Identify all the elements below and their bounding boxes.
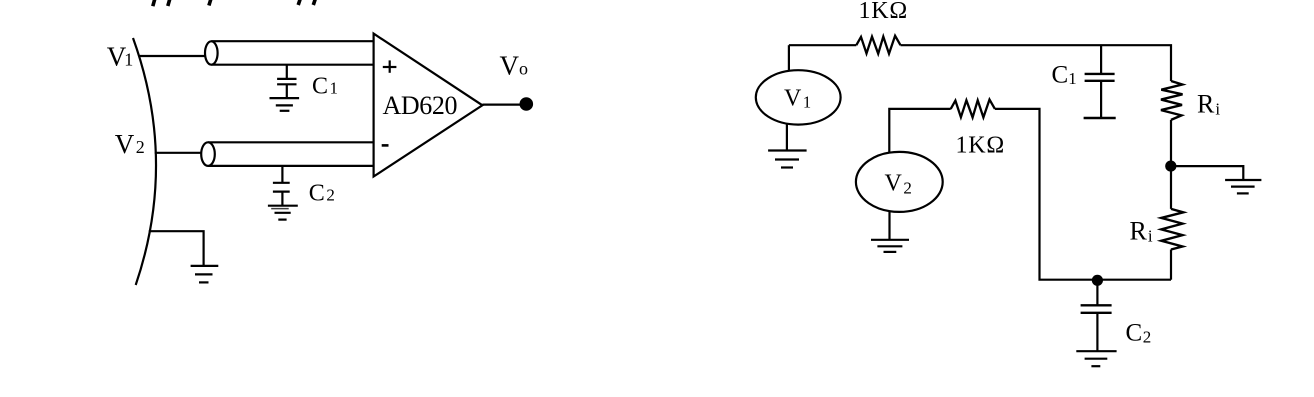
svg-text:1KΩ: 1KΩ bbox=[956, 133, 1006, 159]
svg-text:1KΩ: 1KΩ bbox=[859, 0, 909, 24]
svg-text:AD620: AD620 bbox=[383, 91, 458, 120]
